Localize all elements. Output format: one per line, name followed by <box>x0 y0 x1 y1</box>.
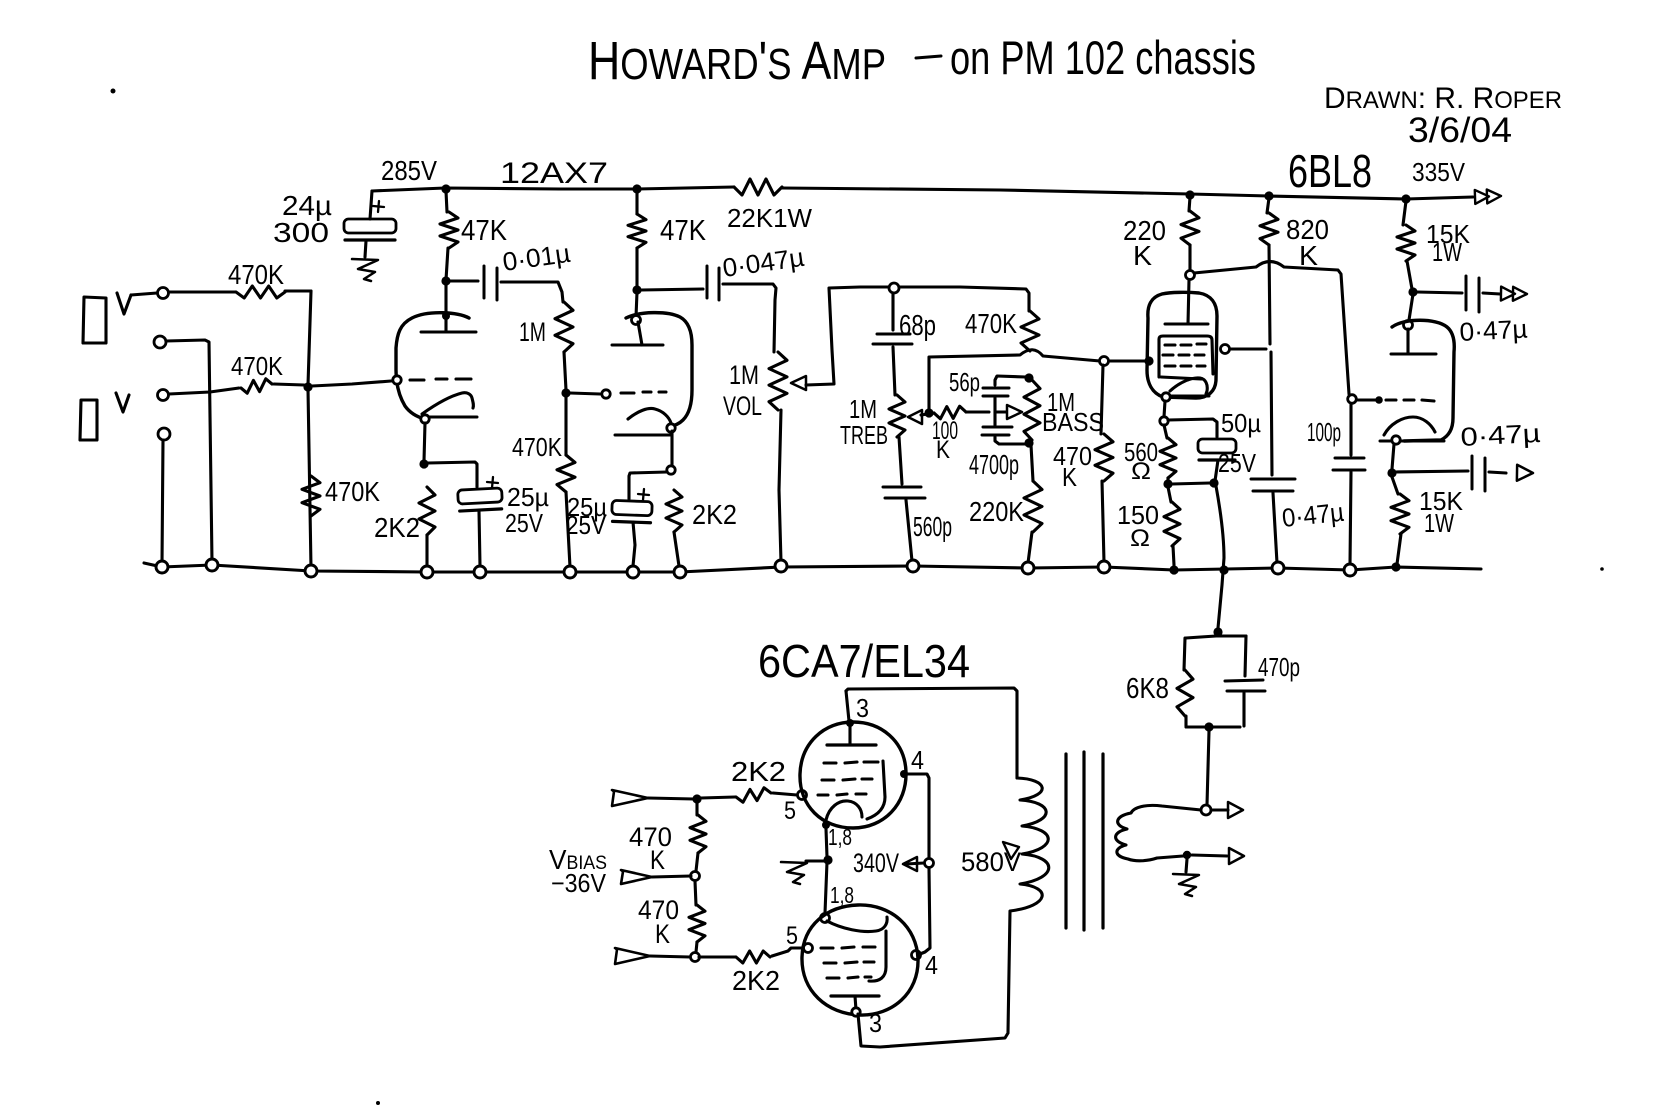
label 15K bottom <box>1419 486 1464 516</box>
wire fb to speaker tap <box>1207 731 1209 805</box>
svg-text:3: 3 <box>856 693 869 723</box>
tube V3 envelope (EL34) <box>800 722 906 828</box>
terminal ground rail 0.47u screen <box>1272 562 1284 574</box>
tube V4 beam plate <box>869 931 886 981</box>
terminal ground rail 25u V1b <box>627 566 639 578</box>
wire feedback node down across rail <box>1216 486 1224 628</box>
capacitor 0.47u output 2 <box>1472 456 1485 491</box>
wire 470K V1b to ground rail <box>566 492 570 567</box>
svg-text:3/6/04: 3/6/04 <box>1408 111 1512 150</box>
wire 4700p to bass bottom <box>995 437 1025 444</box>
svg-text:1M: 1M <box>729 360 759 390</box>
svg-text:470K: 470K <box>512 432 563 462</box>
wire 6K8 to box bottom <box>1184 716 1187 726</box>
wire 2K2 to V3 grid <box>773 793 797 795</box>
junction cathode mid node <box>823 855 832 864</box>
terminal tone out node <box>1100 357 1109 366</box>
terminal V3 grid pin5 <box>798 791 807 800</box>
label pin 4 V4 <box>925 950 938 980</box>
label 50u <box>1221 408 1261 438</box>
wire 56p to mid <box>993 398 996 425</box>
wire V1a cathode down <box>424 423 425 461</box>
wire J1 ring right <box>166 340 212 562</box>
junction B+ at 820K <box>1264 191 1273 200</box>
label 470K V1b <box>512 432 563 462</box>
jack J2 tip contact <box>116 393 129 412</box>
label 6K8 <box>1126 673 1169 705</box>
label 220K tone <box>969 496 1024 527</box>
label 1M TREB a <box>849 394 877 424</box>
capacitor 25u 25V (V1a bypass) <box>458 477 503 511</box>
label 1,8 V4 <box>830 882 854 908</box>
wire bias top to 470K <box>695 803 698 815</box>
wire V1b cathode down <box>670 431 673 467</box>
transformer secondary winding <box>1116 805 1201 860</box>
wire 470p to box bottom <box>1242 693 1245 726</box>
jack J2 body <box>80 400 97 440</box>
tube V1b grid dashes <box>621 392 666 393</box>
resistor 2K2 (V1b cathode) <box>666 490 682 532</box>
capacitor 0.047u coupling <box>707 266 719 300</box>
label 2K2 gs1 <box>731 756 786 787</box>
wire speaker hot arrow <box>1211 808 1228 811</box>
wire 1M to grid node <box>564 352 566 390</box>
wire VOL wiper up-over <box>806 287 890 385</box>
wire B+ to 15K <box>1403 201 1406 225</box>
label 15K top <box>1426 219 1471 249</box>
wire cathode node to 25u#2 <box>629 472 667 499</box>
resistor 1M (V1b grid leak) <box>555 302 573 352</box>
junction B+ at 15K <box>1401 194 1410 203</box>
junction 0.047u tap <box>632 285 641 294</box>
wire pentode cathode down <box>1164 401 1165 417</box>
label 560 <box>1124 437 1158 467</box>
tube V4 plate <box>831 996 879 1010</box>
svg-text:on PM 102 chassis: on PM 102 chassis <box>950 31 1256 84</box>
node A junction <box>303 382 312 391</box>
terminal V1b cathode <box>667 424 675 432</box>
svg-text:50µ: 50µ <box>1221 408 1261 438</box>
wire 0.47u screen to ground rail <box>1273 493 1277 563</box>
junction treb wiper / slope <box>924 408 933 417</box>
label BASS <box>1042 407 1104 437</box>
terminal ground rail J1 ring <box>206 559 218 571</box>
svg-text:2K2: 2K2 <box>374 512 420 543</box>
svg-text:K: K <box>655 919 670 949</box>
wire node to 2K2 gs2 <box>699 955 735 958</box>
terminal V4 grid pin5 <box>804 944 813 953</box>
wire B+ to C-filter <box>370 191 372 219</box>
jack J1 body <box>83 297 106 343</box>
svg-text:220K: 220K <box>969 496 1024 527</box>
junction V3 plate entry <box>846 719 854 727</box>
label 22K1W <box>727 203 812 233</box>
wire node A to V1a grid <box>312 381 391 386</box>
potentiometer 1M VOL <box>769 352 787 410</box>
label 2K2 V1b <box>692 499 737 530</box>
potentiometer 1M BASS <box>1024 380 1040 440</box>
resistor 560R (pentode cathode) <box>1160 438 1176 478</box>
label 6BL8 <box>1288 145 1372 197</box>
svg-text:470K: 470K <box>228 259 284 290</box>
wire plate node to pentode plate <box>1188 280 1189 324</box>
junction fb top <box>1213 627 1222 636</box>
svg-text:1,8: 1,8 <box>828 824 852 850</box>
label 12AX7 <box>500 157 608 190</box>
title text HOWARD'S AMP <box>588 31 886 91</box>
svg-text:300: 300 <box>273 217 329 248</box>
wire 50u to fb node <box>1215 460 1218 481</box>
junction bass bottom <box>1024 438 1033 447</box>
wire 2K2 to V4 grid <box>772 948 803 956</box>
tube V3 grid dashes r3 <box>818 794 866 795</box>
tube V1a grid dashes <box>410 379 471 380</box>
wire 220K to ground rail <box>1028 532 1032 563</box>
resistor 47K (V1a plate) <box>440 212 458 248</box>
junction triode cathode out <box>1387 468 1396 477</box>
byline date 3/6/04 <box>1408 111 1512 150</box>
wire 820K screen line to 0.47u <box>1271 352 1272 475</box>
capacitor 560p <box>883 487 925 498</box>
wire TREB wiper to 100K <box>921 413 934 415</box>
wire vbias arrow to node <box>652 876 691 877</box>
svg-text:Ω: Ω <box>1131 458 1151 485</box>
label ohm 560 <box>1131 458 1151 485</box>
label 470 bias1 <box>629 822 672 852</box>
label 1M VOL a <box>729 360 759 390</box>
junction V1b grid node <box>561 388 570 397</box>
label pin 3 V3 <box>856 693 869 723</box>
resistor 6K8 feedback <box>1177 670 1193 716</box>
wire drive1 to grid stop node <box>648 798 694 799</box>
wire tone out down to 470K <box>1101 365 1103 434</box>
svg-text:470p: 470p <box>1258 652 1300 682</box>
wire B+ to 220K <box>1189 197 1190 211</box>
svg-text:56p: 56p <box>949 367 980 397</box>
label K bias1 <box>650 845 665 875</box>
capacitor 24u 300V electrolytic <box>344 201 396 240</box>
resistor 100K (tone) <box>934 406 966 419</box>
terminal V1b grid <box>602 390 610 398</box>
capacitor 0.01u coupling <box>484 266 497 300</box>
wiper arrow TREB <box>908 410 922 424</box>
tube V2 pentode plate <box>1165 323 1208 326</box>
svg-text:2K2: 2K2 <box>731 756 786 787</box>
junction pentode grid entry <box>1144 356 1153 365</box>
junction speaker ground <box>1183 851 1191 859</box>
tube V4 grid dashes r1 <box>821 947 875 948</box>
wire V3 cathode to mid node <box>826 829 827 857</box>
terminal ground rail J1 <box>156 561 168 573</box>
svg-text:K: K <box>650 845 665 875</box>
tube V1a plate <box>421 331 476 334</box>
svg-text:K: K <box>1062 462 1078 492</box>
wire fb box bottom <box>1186 725 1240 728</box>
svg-text:285V: 285V <box>381 155 437 186</box>
label 580V <box>961 847 1021 877</box>
wire B+ to 47K#2 <box>635 191 638 214</box>
capacitor 68p <box>873 334 912 344</box>
terminal ground rail 220K <box>1022 562 1034 574</box>
wire 340V arrow line <box>906 863 924 864</box>
junction ground rail feedback <box>1219 565 1228 574</box>
junction V4 plate exit <box>852 1008 860 1016</box>
svg-text:VOL: VOL <box>723 391 762 421</box>
label K (screen R) <box>1299 240 1318 271</box>
svg-text:12AX7: 12AX7 <box>500 157 608 190</box>
label 1,8 V3 <box>828 824 852 850</box>
tube V2 pentode grid dashes r2 <box>1163 353 1204 356</box>
label 25u V1a <box>507 482 549 512</box>
wire node column down <box>308 291 311 385</box>
wire J1 tip to terminal <box>131 293 157 295</box>
wire tone out to pentode grid <box>1109 359 1145 362</box>
label 470K input J2 <box>231 351 284 381</box>
svg-text:K: K <box>936 436 950 464</box>
label 4700p <box>969 449 1019 480</box>
svg-text:25V: 25V <box>505 508 544 538</box>
capacitor 4700p <box>982 427 1012 435</box>
tube V2 triode grid dashes <box>1386 400 1434 401</box>
terminal ground rail 2K2 V1a <box>421 566 433 578</box>
wire grid to dashes <box>1357 398 1375 401</box>
label 300 <box>273 217 329 248</box>
resistor 2K2 (grid stopper 2) <box>736 951 770 963</box>
label 0.47u screen <box>1280 497 1345 533</box>
terminal pentode plate node <box>1186 271 1195 280</box>
label 470 bias2 <box>638 895 679 925</box>
svg-text:5: 5 <box>784 797 796 825</box>
wire 560p to ground rail <box>906 500 912 561</box>
resistor 470K (tone slope) <box>1021 311 1039 351</box>
wire plate tap to 0.01u <box>450 279 478 282</box>
stray speck right <box>1600 567 1604 571</box>
svg-text:560p: 560p <box>913 511 952 542</box>
capacitor 470p feedback <box>1225 680 1265 691</box>
tube V4 grid dashes r3 <box>827 977 871 978</box>
resistor 150R (pentode cathode) <box>1164 502 1180 546</box>
wire 68p down <box>891 293 894 330</box>
wire fb box top <box>1186 636 1246 638</box>
wire cathode node to 50u <box>1168 419 1217 437</box>
wire 100K to caps mid <box>966 410 989 413</box>
label 470 (grid leak) <box>1053 441 1092 471</box>
terminal ground rail 470K grid leak <box>1098 561 1110 573</box>
terminal ground rail node A column <box>305 565 317 577</box>
tube V3 beam plate <box>867 761 885 819</box>
junction 560/150 node <box>1163 479 1172 488</box>
svg-text:4: 4 <box>925 950 938 980</box>
wire 15K to out node <box>1407 261 1412 289</box>
tube V1b cathode <box>615 408 671 435</box>
wire out node to triode plate <box>1409 294 1413 320</box>
wire 100p to ground rail <box>1350 472 1351 565</box>
svg-text:335V: 335V <box>1412 157 1466 187</box>
svg-text:4700p: 4700p <box>969 449 1019 480</box>
junction V3 screen pin4 <box>900 770 908 778</box>
svg-text:100p: 100p <box>1307 417 1341 447</box>
ground below 24u cap <box>352 259 378 281</box>
tube V4 envelope (EL34) <box>802 905 918 1015</box>
label 0.01u <box>501 238 573 277</box>
transformer primary winding <box>1008 778 1049 1032</box>
svg-text:TREB: TREB <box>840 420 888 450</box>
svg-text:K: K <box>1133 240 1152 271</box>
tube V4 cathode <box>827 917 887 932</box>
junction B+ at 47K#2 <box>632 184 641 193</box>
capacitor 56p <box>983 388 1009 396</box>
resistor 22K 1W (inline B+ rail) <box>734 179 782 195</box>
svg-text:2K2: 2K2 <box>732 965 780 996</box>
tube V3 grid dashes r1 <box>824 762 878 763</box>
wiper arrow VOL <box>791 376 806 390</box>
arrow input drive 2 <box>615 948 650 964</box>
terminal tone input node <box>889 283 899 293</box>
terminal V1a grid <box>393 376 401 384</box>
terminal V4 screen pin4 <box>912 951 921 960</box>
wire junction to fb node <box>1172 483 1210 484</box>
junction 470K bias top <box>692 794 701 803</box>
arrow speaker cold <box>1229 848 1244 864</box>
junction ground rail 15K <box>1391 562 1400 571</box>
label K (100K) <box>936 436 950 464</box>
svg-text:470K: 470K <box>965 308 1017 339</box>
junction V1a envelope top <box>442 312 450 320</box>
wire 560 top <box>1164 425 1167 438</box>
wire slope bottom S-line <box>929 350 1100 411</box>
wire 2K2 to ground rail <box>425 535 428 566</box>
label 6CA7/EL34 <box>758 635 970 687</box>
wire cathode node to 15K <box>1392 477 1398 494</box>
arrow output 1 <box>1501 287 1527 301</box>
svg-text:K: K <box>1299 240 1318 271</box>
arrow 340V <box>903 857 917 871</box>
label K bias2 <box>655 919 670 949</box>
wire bass top tee <box>995 376 1026 385</box>
wire drive2 to node <box>650 956 690 957</box>
label 1M grid leak <box>519 317 546 347</box>
label 470K input J1 <box>228 259 284 290</box>
label pin 5 V4 <box>786 922 798 950</box>
wire J2 ring to ground rail <box>162 440 163 564</box>
wire 47K to plate node <box>446 248 448 280</box>
resistor 470K (input J2) <box>241 379 272 393</box>
wire fb box left <box>1184 638 1185 670</box>
label 470p <box>1258 652 1300 682</box>
svg-text:25V: 25V <box>566 510 607 540</box>
junction V1a cathode node <box>419 459 428 468</box>
wire screen bus lower <box>920 868 930 954</box>
jack J1 tip contact <box>117 293 131 314</box>
wire mid node down <box>825 862 827 913</box>
wire cap to arrow out2 <box>1489 472 1506 473</box>
label 68p <box>899 310 936 342</box>
resistor 15K 1W (triode cathode) <box>1391 494 1409 534</box>
svg-text:4: 4 <box>911 745 924 775</box>
wire V3 screen to screen bus <box>908 774 929 858</box>
terminal triode grid <box>1348 395 1357 404</box>
resistor 470K (grid leak, node A column) <box>302 476 320 516</box>
wire 25u to ground rail <box>479 511 480 566</box>
terminal pentode cathode node <box>1160 417 1168 425</box>
terminal screen bus 340V <box>925 859 934 868</box>
svg-text:47K: 47K <box>461 215 508 247</box>
label K (plate R) <box>1133 240 1152 271</box>
terminal J2 ring <box>158 428 170 440</box>
wire OPT to V3 plate <box>846 691 849 721</box>
terminal V4 cathode entry <box>821 914 830 923</box>
svg-text:HOWARD'S AMP: HOWARD'S AMP <box>588 31 886 91</box>
svg-text:22K1W: 22K1W <box>727 203 812 233</box>
terminal ground rail 2K2 V1b <box>674 566 686 578</box>
tube V2 pentode cathode <box>1167 378 1209 396</box>
arrow input drive 1 <box>612 790 648 806</box>
terminal pentode screen <box>1221 345 1230 354</box>
resistor 220K (pentode plate) <box>1181 211 1199 245</box>
junction triode grid dash <box>1375 396 1383 404</box>
tube V2 triode cathode <box>1380 417 1444 441</box>
svg-text:1W: 1W <box>1432 237 1462 267</box>
junction fb bottom <box>1204 722 1213 731</box>
wire cathode node to 25u <box>428 462 477 487</box>
svg-text:2K2: 2K2 <box>692 499 737 530</box>
label 0.47u out2 <box>1460 418 1541 452</box>
tube V1b plate <box>612 322 663 345</box>
svg-text:1W: 1W <box>1424 508 1454 538</box>
resistor 470K (bias feed 2) <box>689 905 705 942</box>
label 470K slope <box>965 308 1017 339</box>
wire 150 top <box>1168 487 1171 502</box>
resistor 47K (V1b plate) <box>628 214 646 248</box>
arrow vbias input <box>621 870 652 884</box>
wire out node to 0.47u out1 <box>1417 292 1462 293</box>
tube V2 pentode inner box <box>1159 336 1213 379</box>
label 25V V1b <box>566 510 607 540</box>
label 1M BASS a <box>1047 387 1075 417</box>
terminal speaker out hot <box>1201 805 1211 815</box>
label 47K V1a <box>461 215 508 247</box>
label 820 (screen R) <box>1286 214 1329 245</box>
label 100p <box>1307 417 1341 447</box>
label ohm 150 <box>1130 525 1150 552</box>
label 0.47u out1 <box>1459 313 1528 347</box>
tube V3 plate <box>827 725 876 745</box>
label 2K2 V1a <box>374 512 420 543</box>
resistor 2K2 (V1a cathode) <box>419 487 435 535</box>
junction 0.01u tap <box>441 276 450 285</box>
tube V2 pentode envelope <box>1147 292 1217 398</box>
junction B+ at 220K <box>1185 190 1194 199</box>
wire grid node down to 470K <box>564 397 567 455</box>
terminal J1 ring <box>154 336 166 348</box>
svg-text:3: 3 <box>869 1008 882 1038</box>
tube V1b envelope (12AX7 b) <box>626 313 692 426</box>
tube V2 pentode grid dashes r1 <box>1165 344 1206 345</box>
svg-text:6K8: 6K8 <box>1126 673 1169 705</box>
label TREB <box>840 420 888 450</box>
svg-text:Ω: Ω <box>1130 525 1150 552</box>
arrow output 2 <box>1517 465 1533 481</box>
terminal V1b cathode node <box>667 466 675 474</box>
junction B+ at 47K#1 <box>441 184 450 193</box>
wire 820K down to screen node <box>1269 245 1270 344</box>
wire VOL to ground rail <box>779 410 781 562</box>
wire 470K J2 to node A <box>274 384 304 385</box>
terminal V1b envelope top <box>632 316 641 325</box>
stray speck bottom <box>376 1101 380 1105</box>
wire grid node to V1b grid <box>570 393 600 394</box>
wire mid to bass wiper <box>995 410 1006 413</box>
